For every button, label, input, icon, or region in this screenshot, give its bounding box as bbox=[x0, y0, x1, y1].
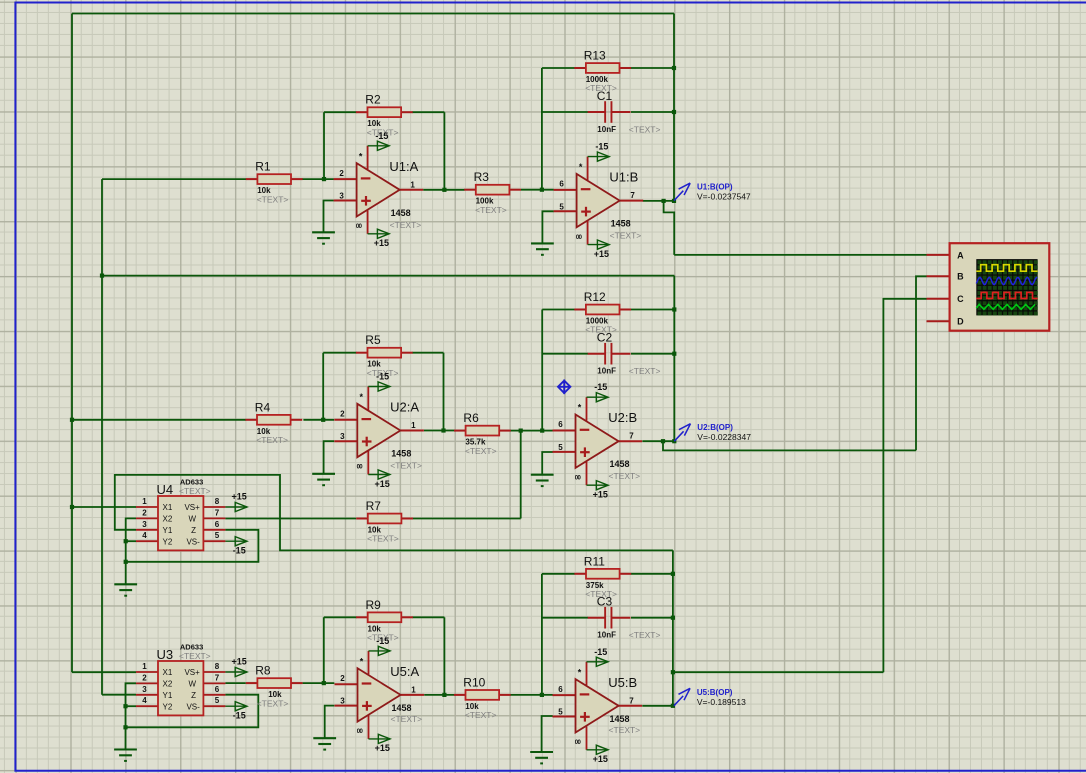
power -15 arrow at U4 pin5 bbox=[225, 537, 247, 556]
svg-text:U2:B(OP): U2:B(OP) bbox=[697, 423, 733, 432]
svg-text:3: 3 bbox=[142, 685, 147, 694]
svg-text:8: 8 bbox=[215, 662, 220, 671]
svg-text:R8: R8 bbox=[255, 664, 271, 678]
svg-text:*: * bbox=[579, 162, 583, 172]
svg-text:7: 7 bbox=[630, 191, 635, 200]
svg-text:6: 6 bbox=[559, 180, 564, 189]
svg-text:<TEXT>: <TEXT> bbox=[475, 205, 507, 215]
svg-text:U5:A: U5:A bbox=[390, 664, 419, 679]
svg-text:-15: -15 bbox=[376, 636, 389, 646]
wire: U4.Y2 to ground rail bbox=[126, 540, 136, 542]
svg-text:+15: +15 bbox=[374, 238, 389, 248]
wire: top rail from U1:B output node to left rail bbox=[72, 13, 674, 15]
wire: node tap to scope C bbox=[673, 671, 884, 673]
svg-text:2: 2 bbox=[340, 410, 345, 419]
svg-text:U1:A: U1:A bbox=[389, 159, 418, 174]
svg-text:<TEXT>: <TEXT> bbox=[257, 194, 289, 204]
wire: R9 left leg down to R8 wire bbox=[323, 617, 325, 683]
capacitor C2 bbox=[588, 331, 661, 377]
resistor R1 bbox=[246, 160, 303, 205]
svg-text:1: 1 bbox=[411, 421, 416, 430]
wire: U1:B feedback left leg bbox=[541, 68, 543, 190]
svg-text:U1:B: U1:B bbox=[609, 170, 638, 185]
svg-text:<TEXT>: <TEXT> bbox=[367, 534, 399, 544]
resistor R13 bbox=[574, 49, 631, 94]
svg-text:1458: 1458 bbox=[391, 449, 411, 459]
wire: U1:B output to node bbox=[643, 200, 674, 202]
op-amp U2:A bbox=[334, 372, 424, 489]
wire: U4.W to R7 bbox=[225, 518, 356, 520]
wire: U2:B feedback left leg bbox=[541, 310, 543, 431]
svg-text:-15: -15 bbox=[594, 647, 607, 657]
svg-text:1: 1 bbox=[142, 497, 147, 506]
resistor R8 bbox=[246, 664, 303, 709]
wire: mid rail from rail2 to U2:B node bbox=[102, 275, 674, 277]
voltage probe U5:B(OP) bbox=[674, 688, 690, 706]
wire: U4.X2 to ground rail bbox=[126, 518, 136, 584]
multiplier U4 AD633 bbox=[136, 477, 225, 550]
wire: R2 left leg down to pin2 wire bbox=[323, 112, 325, 179]
svg-text:R9: R9 bbox=[366, 598, 382, 612]
svg-text:+15: +15 bbox=[375, 743, 390, 753]
svg-text:<TEXT>: <TEXT> bbox=[610, 231, 642, 241]
svg-text:U4: U4 bbox=[157, 482, 174, 497]
wire: R6 to U2:B pin6 bbox=[510, 430, 553, 432]
svg-text:-15: -15 bbox=[595, 142, 608, 152]
resistor R4 bbox=[245, 400, 302, 445]
wire: U3.W to R8 bbox=[225, 682, 245, 684]
wire: U5:B pin5 to ground bbox=[542, 716, 553, 752]
svg-text:<TEXT>: <TEXT> bbox=[609, 725, 641, 735]
power -15 arrow at U3 pin5 bbox=[225, 702, 247, 721]
resistor R2 bbox=[356, 93, 413, 138]
svg-text:C2: C2 bbox=[597, 331, 613, 345]
svg-text:VS-: VS- bbox=[186, 537, 200, 546]
svg-text:*: * bbox=[360, 656, 364, 666]
svg-text:10nF: 10nF bbox=[597, 125, 616, 134]
wire: U5:A pin3 to ground bbox=[325, 706, 335, 739]
wire: R11 left bbox=[542, 573, 575, 575]
svg-text:R13: R13 bbox=[584, 49, 606, 63]
svg-text:X2: X2 bbox=[163, 515, 173, 524]
svg-text:2: 2 bbox=[142, 508, 147, 517]
svg-text:1: 1 bbox=[142, 662, 147, 671]
svg-text:*: * bbox=[360, 392, 364, 402]
scope trace A yellow square bbox=[976, 265, 1037, 272]
wire: U1:B output node vertical bbox=[673, 14, 675, 201]
svg-text:V=-0.0237547: V=-0.0237547 bbox=[697, 192, 751, 202]
svg-text:7: 7 bbox=[629, 696, 634, 705]
wire: U3.X2 to ground rail bbox=[126, 683, 137, 749]
wire: R1 input from rail2 bbox=[102, 178, 246, 180]
wire: R12 left bbox=[542, 309, 574, 311]
svg-text:8: 8 bbox=[215, 497, 220, 506]
svg-text:R7: R7 bbox=[366, 499, 382, 513]
svg-text:U2:A: U2:A bbox=[390, 400, 419, 415]
svg-text:<TEXT>: <TEXT> bbox=[391, 714, 423, 724]
wire: rail1 to U4.X1 bbox=[72, 506, 136, 508]
svg-text:5: 5 bbox=[558, 443, 563, 452]
voltage probe U1:B(OP) bbox=[674, 183, 690, 201]
wire: R2 left bbox=[324, 111, 356, 113]
wire: R2 right leg down to U1:A output bbox=[443, 112, 445, 190]
resistor R12 bbox=[574, 290, 631, 335]
svg-text:R6: R6 bbox=[463, 411, 479, 425]
svg-text:1458: 1458 bbox=[391, 208, 411, 218]
svg-text:+15: +15 bbox=[593, 490, 608, 500]
svg-text:-15: -15 bbox=[375, 131, 388, 141]
wire: R7 right leg up to R6 wire bbox=[520, 431, 522, 519]
svg-text:<TEXT>: <TEXT> bbox=[179, 486, 211, 496]
svg-text:<TEXT>: <TEXT> bbox=[256, 435, 288, 445]
wire: scope C vertical bbox=[883, 299, 926, 672]
svg-text:5: 5 bbox=[215, 696, 220, 705]
svg-text:-15: -15 bbox=[233, 711, 246, 721]
wire: U2:A pin3 to ground bbox=[324, 441, 335, 474]
origin marker bbox=[558, 380, 570, 395]
wire: R5 right leg to U2:A output bbox=[443, 353, 445, 431]
wire: node to oscilloscope channel A bbox=[674, 254, 926, 256]
wire: C1 right to node bbox=[631, 111, 674, 113]
wire: R13 left bbox=[542, 67, 575, 69]
svg-text:<TEXT>: <TEXT> bbox=[179, 651, 211, 661]
op-amp U1:A bbox=[334, 131, 424, 248]
svg-text:B: B bbox=[957, 272, 964, 282]
power +15 arrow at U4 pin8 bbox=[225, 492, 247, 512]
svg-text:R5: R5 bbox=[365, 333, 381, 347]
wire: R10 to U5:B pin6 bbox=[510, 694, 552, 696]
svg-text:3: 3 bbox=[340, 697, 345, 706]
svg-text:V=-0.0228347: V=-0.0228347 bbox=[697, 432, 751, 442]
wire: rail2 corner to U3.Y1 bbox=[102, 694, 136, 696]
ground U2:A gnd bbox=[312, 474, 335, 485]
wire: rail1 to R4 bbox=[72, 419, 246, 421]
wire: R11 right to node bbox=[631, 573, 673, 575]
svg-text:4: 4 bbox=[142, 531, 147, 540]
wire: R4 to U2:A pin2 bbox=[303, 419, 334, 421]
ground U2:B gnd bbox=[531, 475, 554, 486]
wire: U3.Z loop to ground rail bbox=[126, 695, 259, 728]
wire: C1 left bbox=[542, 111, 588, 113]
wire: R9 left bbox=[324, 616, 357, 618]
svg-text:3: 3 bbox=[142, 520, 147, 529]
svg-text:Y1: Y1 bbox=[163, 526, 173, 535]
svg-text:*: * bbox=[578, 403, 582, 413]
svg-text:D: D bbox=[957, 317, 964, 327]
resistor R9 bbox=[356, 598, 413, 643]
wire: U5:A output to R10 bbox=[424, 694, 454, 696]
scope trace B blue sine bbox=[976, 277, 1037, 284]
svg-text:5: 5 bbox=[559, 202, 564, 211]
op-amp U2:B bbox=[553, 382, 643, 499]
svg-text:A: A bbox=[957, 250, 964, 260]
wire: U1:B pin5 to ground bbox=[542, 211, 553, 243]
svg-text:Y1: Y1 bbox=[163, 691, 173, 700]
svg-text:2: 2 bbox=[340, 674, 345, 683]
svg-text:<TEXT>: <TEXT> bbox=[629, 630, 661, 640]
svg-text:<TEXT>: <TEXT> bbox=[465, 446, 497, 456]
svg-text:V=-0.189513: V=-0.189513 bbox=[697, 697, 746, 707]
wire: U1:A pin3 to ground bbox=[324, 201, 334, 233]
svg-text:R11: R11 bbox=[584, 554, 605, 568]
capacitor C1 bbox=[588, 89, 661, 135]
svg-text:Z: Z bbox=[191, 526, 196, 535]
svg-text:X1: X1 bbox=[163, 503, 173, 512]
resistor R10 bbox=[454, 675, 511, 720]
svg-text:R4: R4 bbox=[255, 400, 271, 414]
op-amp U5:A bbox=[335, 636, 425, 753]
svg-text:W: W bbox=[188, 680, 196, 689]
svg-text:+15: +15 bbox=[232, 657, 247, 667]
svg-text:W: W bbox=[188, 515, 196, 524]
svg-text:10nF: 10nF bbox=[597, 631, 616, 640]
svg-text:+15: +15 bbox=[594, 249, 609, 259]
svg-text:C3: C3 bbox=[597, 595, 613, 609]
svg-text:+15: +15 bbox=[374, 479, 389, 489]
svg-text:6: 6 bbox=[215, 520, 220, 529]
svg-text:<TEXT>: <TEXT> bbox=[465, 710, 497, 720]
wire: rail1 corner to U3.X1 bbox=[72, 671, 136, 673]
wire: U5:B feedback left leg bbox=[541, 574, 543, 695]
svg-text:<TEXT>: <TEXT> bbox=[609, 471, 641, 481]
svg-text:R12: R12 bbox=[584, 290, 606, 304]
svg-text:1458: 1458 bbox=[611, 219, 631, 229]
wire: R7 right bbox=[413, 518, 521, 520]
svg-text:Y2: Y2 bbox=[163, 702, 173, 711]
svg-text:<TEXT>: <TEXT> bbox=[257, 698, 289, 708]
wire: U2:A output to R6 bbox=[424, 430, 455, 432]
svg-text:*: * bbox=[359, 151, 363, 161]
wire: U2:B node vertical bbox=[673, 276, 675, 442]
wire: U4.Z loop to ground rail bbox=[126, 530, 259, 562]
wire: R13 right to node bbox=[631, 67, 674, 69]
ground U1:B gnd bbox=[531, 243, 554, 254]
svg-text:6: 6 bbox=[558, 685, 563, 694]
wire: C3 right to node bbox=[631, 617, 673, 619]
svg-text:1: 1 bbox=[410, 180, 415, 189]
wire: U2:B output jog down to scope B rail bbox=[663, 441, 916, 450]
svg-text:2: 2 bbox=[339, 169, 344, 178]
wire: rail 2 (y state) from R1 down to U3.Y1 bbox=[101, 179, 103, 695]
op-amp U1:B bbox=[554, 142, 644, 259]
svg-text:R1: R1 bbox=[255, 160, 271, 174]
wire: U2:B output to node bbox=[642, 440, 674, 442]
svg-text:+15: +15 bbox=[593, 754, 608, 764]
wire: R9 right bbox=[412, 616, 444, 618]
resistor R7 bbox=[356, 499, 413, 544]
svg-text:C: C bbox=[957, 294, 964, 304]
wire: U3.Y2 to ground rail bbox=[126, 705, 137, 707]
svg-text:R2: R2 bbox=[365, 93, 381, 107]
svg-text:2: 2 bbox=[142, 673, 147, 682]
oscilloscope bbox=[927, 243, 1050, 331]
svg-text:U5:B(OP): U5:B(OP) bbox=[697, 688, 733, 697]
wire: R3 to U1:B pin6 bbox=[521, 189, 554, 191]
power +15 arrow at U3 pin8 bbox=[225, 657, 247, 677]
svg-text:Z: Z bbox=[191, 691, 196, 700]
scope trace D green triangle bbox=[976, 304, 1035, 309]
svg-text:VS-: VS- bbox=[186, 702, 200, 711]
svg-text:5: 5 bbox=[215, 531, 220, 540]
wire: R5 right bbox=[412, 352, 443, 354]
resistor R6 bbox=[454, 411, 511, 456]
ground U5:A gnd bbox=[313, 738, 336, 749]
wire: R8 to U5:A pin2 bbox=[303, 682, 335, 684]
svg-text:+15: +15 bbox=[232, 492, 247, 502]
wire: C3 left bbox=[542, 617, 588, 619]
svg-text:Y2: Y2 bbox=[163, 537, 173, 546]
svg-text:<TEXT>: <TEXT> bbox=[629, 366, 661, 376]
wire: U4.Y1 long route to U5:B node bbox=[115, 475, 673, 551]
svg-text:VS+: VS+ bbox=[184, 503, 200, 512]
wire: U5:B node vertical bbox=[672, 550, 674, 705]
op-amp U5:B bbox=[553, 647, 643, 764]
ground U3 gnd bbox=[114, 750, 137, 761]
svg-text:U3: U3 bbox=[157, 647, 174, 662]
svg-text:7: 7 bbox=[215, 673, 220, 682]
svg-text:5: 5 bbox=[558, 708, 563, 717]
svg-text:3: 3 bbox=[339, 192, 344, 201]
svg-text:6: 6 bbox=[215, 685, 220, 694]
wire: R5 left bbox=[323, 352, 356, 354]
wire: R5 left leg bbox=[322, 353, 324, 420]
svg-text:*: * bbox=[578, 667, 582, 677]
wire: R9 right leg to U5:A output bbox=[443, 617, 445, 695]
svg-text:1458: 1458 bbox=[392, 703, 412, 713]
wire: C2 right to node bbox=[631, 353, 674, 355]
svg-text:-15: -15 bbox=[233, 546, 246, 556]
svg-text:3: 3 bbox=[340, 432, 345, 441]
svg-text:U5:B: U5:B bbox=[608, 675, 637, 690]
svg-text:4: 4 bbox=[142, 696, 147, 705]
svg-text:<TEXT>: <TEXT> bbox=[390, 220, 422, 230]
wire: U5:B output to node bbox=[642, 705, 673, 707]
wire: scope B vertical bbox=[916, 276, 927, 450]
ground U1:A gnd bbox=[312, 232, 335, 243]
resistor R11 bbox=[574, 554, 631, 599]
svg-text:X2: X2 bbox=[163, 680, 173, 689]
svg-text:10nF: 10nF bbox=[597, 367, 616, 376]
svg-text:C1: C1 bbox=[597, 89, 613, 103]
multiplier U3 AD633 bbox=[136, 642, 225, 715]
svg-text:-15: -15 bbox=[594, 382, 607, 392]
svg-text:<TEXT>: <TEXT> bbox=[390, 461, 422, 471]
wire: R2 right bbox=[412, 111, 444, 113]
wire: U1:B output jog down to scope A rail bbox=[664, 201, 675, 255]
svg-text:VS+: VS+ bbox=[184, 668, 200, 677]
voltage probe U2:B(OP) bbox=[674, 424, 690, 442]
wire: R12 right to node bbox=[631, 309, 675, 311]
svg-text:7: 7 bbox=[629, 432, 634, 441]
wire: U1:A output to R3 bbox=[423, 189, 464, 191]
wire: C2 left bbox=[542, 353, 588, 355]
wire: U2:B pin5 to ground bbox=[542, 452, 553, 475]
wire: left rail 1 (x state) down to U3.X1 bbox=[71, 14, 73, 673]
svg-text:R3: R3 bbox=[474, 170, 490, 184]
ground U4 gnd bbox=[114, 584, 137, 595]
scope trace C red square bbox=[976, 292, 1037, 298]
svg-text:1458: 1458 bbox=[610, 459, 630, 469]
svg-text:1458: 1458 bbox=[610, 714, 630, 724]
svg-text:6: 6 bbox=[558, 420, 563, 429]
resistor R5 bbox=[356, 333, 413, 378]
resistor R3 bbox=[464, 170, 521, 215]
svg-text:R10: R10 bbox=[463, 675, 485, 689]
svg-text:1: 1 bbox=[411, 685, 416, 694]
svg-text:7: 7 bbox=[215, 508, 220, 517]
capacitor C3 bbox=[588, 595, 661, 641]
svg-text:-15: -15 bbox=[376, 372, 389, 382]
svg-text:U2:B: U2:B bbox=[608, 410, 637, 425]
svg-text:X1: X1 bbox=[163, 668, 173, 677]
ground U5:B gnd bbox=[530, 752, 553, 763]
wire: R1 to U1:A pin2 bbox=[302, 178, 334, 180]
svg-text:<TEXT>: <TEXT> bbox=[629, 125, 661, 135]
svg-text:U1:B(OP): U1:B(OP) bbox=[697, 183, 733, 192]
